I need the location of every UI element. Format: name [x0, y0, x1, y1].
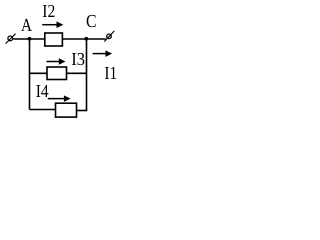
svg-text:I1: I1 [104, 63, 117, 83]
svg-text:I3: I3 [71, 49, 85, 69]
svg-text:A: A [21, 15, 33, 35]
svg-text:I2: I2 [42, 1, 55, 21]
svg-text:C: C [86, 11, 97, 31]
svg-text:I4: I4 [36, 81, 49, 101]
